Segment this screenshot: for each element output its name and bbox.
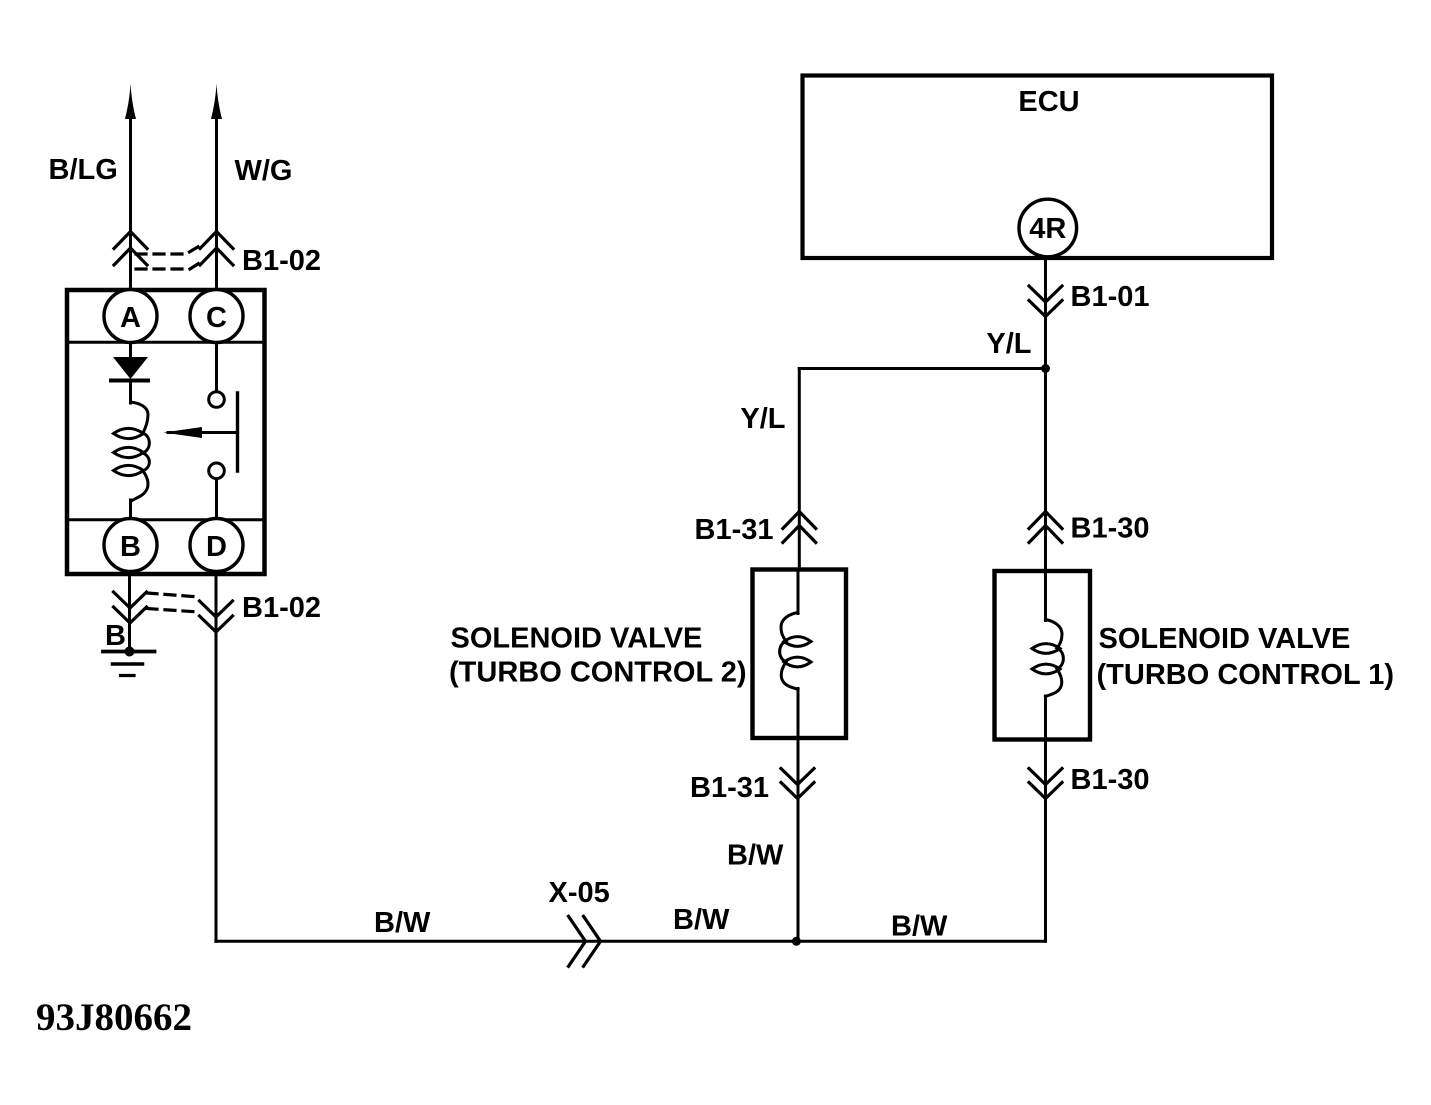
svg-text:B1-31: B1-31 xyxy=(695,514,774,546)
svg-text:D: D xyxy=(206,531,227,563)
svg-text:C: C xyxy=(206,302,227,334)
svg-text:(TURBO CONTROL 2): (TURBO CONTROL 2) xyxy=(449,657,747,689)
svg-text:Y/L: Y/L xyxy=(740,403,785,435)
svg-text:SOLENOID VALVE: SOLENOID VALVE xyxy=(451,623,703,655)
svg-text:B1-30: B1-30 xyxy=(1071,513,1150,545)
svg-text:93J80662: 93J80662 xyxy=(36,996,192,1039)
svg-text:SOLENOID VALVE: SOLENOID VALVE xyxy=(1099,623,1351,655)
svg-text:B/LG: B/LG xyxy=(49,154,118,186)
svg-text:B1-31: B1-31 xyxy=(690,772,769,804)
svg-text:B/W: B/W xyxy=(374,907,431,939)
svg-text:W/G: W/G xyxy=(235,155,293,187)
svg-text:B1-02: B1-02 xyxy=(242,592,321,624)
svg-text:A: A xyxy=(120,302,141,334)
svg-text:B1-02: B1-02 xyxy=(242,245,321,277)
svg-text:Y/L: Y/L xyxy=(986,328,1031,360)
svg-text:B1-30: B1-30 xyxy=(1071,764,1150,796)
svg-text:B1-01: B1-01 xyxy=(1071,281,1150,313)
svg-text:(TURBO CONTROL 1): (TURBO CONTROL 1) xyxy=(1097,659,1395,691)
svg-text:B/W: B/W xyxy=(727,840,784,872)
svg-text:B: B xyxy=(120,531,141,563)
svg-text:4R: 4R xyxy=(1029,213,1066,245)
svg-text:B: B xyxy=(105,620,126,652)
svg-text:B/W: B/W xyxy=(891,911,948,943)
svg-text:B/W: B/W xyxy=(673,904,730,936)
svg-text:X-05: X-05 xyxy=(549,877,610,909)
svg-text:ECU: ECU xyxy=(1018,86,1079,118)
